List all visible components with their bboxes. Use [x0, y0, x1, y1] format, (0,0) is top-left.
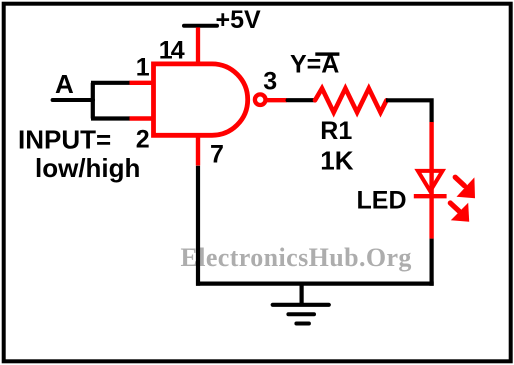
- svg-text:+5V: +5V: [216, 6, 262, 34]
- resistor R1 zigzag: [315, 88, 387, 112]
- NAND gate output bubble: [255, 94, 266, 105]
- svg-text:1K: 1K: [320, 146, 353, 176]
- svg-text:R1: R1: [320, 117, 352, 145]
- svg-text:2: 2: [136, 126, 150, 154]
- svg-text:ElectronicsHub.Org: ElectronicsHub.Org: [181, 243, 412, 272]
- svg-text:A: A: [55, 69, 74, 99]
- wire: output black segment to resistor: [288, 98, 314, 102]
- wire: +5V to gate pin 14 (red): [196, 27, 200, 64]
- wire: LED anode/cathode lead through symbol (red): [429, 122, 433, 239]
- wire: pin 2 stub (red): [130, 116, 153, 120]
- wire: LED cathode black vertical: [430, 239, 434, 286]
- svg-text:LED: LED: [357, 187, 407, 215]
- svg-text:1: 1: [136, 53, 150, 81]
- svg-text:low/high: low/high: [35, 153, 140, 183]
- svg-text:7: 7: [210, 141, 224, 169]
- LED D1 triangle: [418, 171, 443, 191]
- LED cathode bar: [414, 194, 447, 198]
- svg-text:3: 3: [263, 67, 277, 95]
- wire: top branch to pin 1 (black): [91, 81, 130, 85]
- power +5V rail tick: [184, 24, 217, 28]
- LED emission arrow 1: [455, 177, 475, 198]
- wire: pin 7 black vertical: [196, 166, 200, 286]
- wire: output stub from bubble (red): [266, 98, 288, 102]
- svg-text:INPUT=: INPUT=: [18, 125, 111, 155]
- LED emission arrow 2: [450, 203, 469, 222]
- wire: bottom branch to pin 2 (black): [91, 116, 130, 120]
- svg-text:14: 14: [159, 37, 185, 65]
- wire: pin 7 (red part): [196, 135, 200, 165]
- NAND gate U1 body: [154, 64, 248, 135]
- wire: pin 1 stub (red): [130, 81, 153, 85]
- ground: [273, 284, 329, 324]
- wire: input A lead: [53, 98, 93, 102]
- wire: input splitter vertical: [91, 83, 95, 119]
- wire: resistor to top-right corner: [386, 100, 432, 122]
- wire: bottom rail: [196, 282, 434, 286]
